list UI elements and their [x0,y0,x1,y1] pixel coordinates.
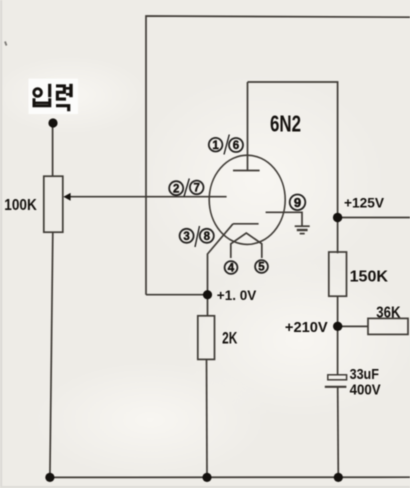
svg-text:9: 9 [294,195,301,210]
svg-text:+1. 0V: +1. 0V [217,288,256,303]
svg-text:150K: 150K [350,269,389,286]
svg-text:+210V: +210V [285,319,328,336]
svg-text:2: 2 [173,183,179,195]
svg-text:400V: 400V [350,381,381,398]
svg-text:1: 1 [212,140,219,152]
svg-text:+125V: +125V [344,195,385,211]
svg-text:2K: 2K [222,329,238,348]
svg-text:4: 4 [228,263,235,275]
svg-text:6N2: 6N2 [270,111,301,137]
svg-text:7: 7 [193,183,199,195]
svg-text:5: 5 [258,262,265,274]
svg-text:100K: 100K [4,197,37,214]
svg-text:3: 3 [183,231,189,243]
svg-text:33uF: 33uF [350,366,379,383]
svg-text:36K: 36K [376,305,401,322]
svg-text:8: 8 [204,231,211,243]
svg-text:6: 6 [233,140,239,152]
